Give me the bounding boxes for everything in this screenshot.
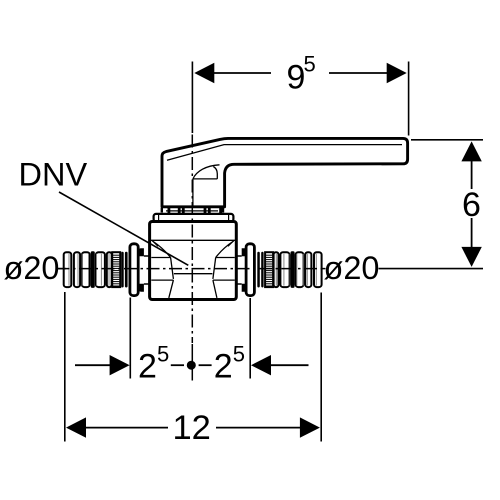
left fitting knurl block bbox=[112, 252, 120, 287]
bonnet end ticks bbox=[159, 214, 229, 221]
handle saddle arc bbox=[193, 165, 220, 179]
dim 12 right arrow bbox=[300, 417, 320, 437]
left fitting dark band bbox=[91, 251, 95, 288]
handle saddle fold bbox=[213, 167, 217, 179]
valve body bbox=[150, 222, 237, 300]
dim 6 down arrow bbox=[461, 247, 481, 267]
svg-text:5: 5 bbox=[304, 52, 316, 77]
dim 2-5 mid left tick bbox=[171, 364, 184, 366]
dim 9-5 right arrow bbox=[387, 63, 407, 83]
dim 9-5 right shaft bbox=[329, 72, 387, 74]
seat right bbox=[213, 258, 216, 279]
left fitting pills bbox=[64, 252, 112, 287]
dim 12 left shaft bbox=[86, 427, 168, 429]
centerline tick right of fitting bbox=[322, 268, 326, 270]
handle inner top line bbox=[167, 145, 402, 161]
seat flare left bbox=[169, 280, 174, 298]
dim 2-5 right arrow bbox=[251, 355, 271, 375]
dim 6 top extension line bbox=[411, 139, 483, 141]
dim 2-5 right extension line bbox=[249, 298, 251, 379]
right stub collar bbox=[242, 248, 248, 256]
dim 2-5 left extension line bbox=[129, 298, 131, 379]
left diameter tick bbox=[57, 268, 67, 270]
dim 9-5 left shaft bbox=[214, 72, 271, 74]
port line lower left bbox=[151, 279, 173, 281]
right fitting inner lines bbox=[276, 254, 316, 286]
right fitting knurl stripes bbox=[266, 255, 272, 286]
stem strip line bbox=[166, 210, 218, 212]
horizontal centerline right solid extension bbox=[379, 268, 484, 270]
dim 9-5 left extension line bbox=[191, 62, 193, 134]
right stub neck lines bbox=[236, 256, 242, 284]
port line upper left bbox=[151, 257, 170, 259]
left stub neck lines bbox=[144, 256, 150, 284]
horizontal centerline dash-dot bbox=[57, 268, 322, 270]
funnel diagonal right bbox=[216, 241, 234, 258]
seat left bbox=[171, 258, 174, 279]
vertical centerline solid through dot bbox=[191, 344, 193, 381]
dim 12 left arrow bbox=[66, 417, 86, 437]
svg-text:2: 2 bbox=[138, 348, 157, 386]
handle lever outline bbox=[162, 138, 408, 206]
port line upper right bbox=[216, 257, 235, 259]
left fitting inner lines bbox=[69, 254, 109, 286]
svg-text:ø20: ø20 bbox=[4, 250, 60, 286]
handle saddle lines bbox=[193, 179, 217, 207]
svg-text:DNV: DNV bbox=[19, 157, 88, 193]
stem black ticks bbox=[161, 208, 225, 214]
dim 12 right extension line bbox=[320, 293, 322, 442]
dim 12 right shaft bbox=[216, 427, 300, 429]
bonnet cap bbox=[154, 214, 234, 222]
svg-text:12: 12 bbox=[173, 409, 211, 447]
svg-text:5: 5 bbox=[233, 342, 245, 367]
funnel diagonal left bbox=[153, 241, 171, 258]
right fitting dark band bbox=[291, 251, 295, 288]
svg-text:5: 5 bbox=[157, 342, 169, 367]
svg-text:ø20: ø20 bbox=[324, 250, 380, 286]
right fitting rings bbox=[261, 252, 263, 288]
dim 2-5 left outer shaft bbox=[75, 364, 110, 366]
seat flare right bbox=[213, 280, 217, 298]
ball port bottom line bbox=[174, 273, 213, 275]
dim 2-5 mid right tick bbox=[199, 364, 212, 366]
svg-text:6: 6 bbox=[462, 186, 481, 224]
right fitting knurl block bbox=[265, 252, 273, 287]
svg-text:2: 2 bbox=[214, 348, 233, 386]
dim 12 left extension line bbox=[64, 292, 66, 442]
left fitting knurl stripes bbox=[113, 255, 119, 286]
center dot bbox=[187, 361, 196, 370]
dim 9-5 left arrow bbox=[194, 63, 214, 83]
body joint line bbox=[151, 239, 235, 241]
left stub collar bbox=[139, 248, 144, 256]
port line lower right bbox=[213, 279, 235, 281]
left fitting rings bbox=[121, 252, 124, 288]
right fitting pills bbox=[274, 252, 322, 287]
dim 9-5 right extension line bbox=[408, 62, 410, 136]
body corner chamfer right bbox=[228, 241, 234, 247]
dim 6 upper shaft bbox=[471, 158, 473, 189]
dim 6 lower shaft bbox=[471, 218, 473, 250]
DNV leader line bbox=[59, 192, 188, 265]
dim 6 up arrow bbox=[461, 141, 481, 161]
left flange bbox=[130, 244, 138, 296]
vertical centerline dash-dot bbox=[191, 135, 193, 344]
dim 2-5 left arrow bbox=[110, 355, 130, 375]
right flange bbox=[246, 244, 254, 296]
body corner chamfer left bbox=[152, 241, 158, 247]
dim 2-5 right outer shaft bbox=[271, 364, 309, 366]
